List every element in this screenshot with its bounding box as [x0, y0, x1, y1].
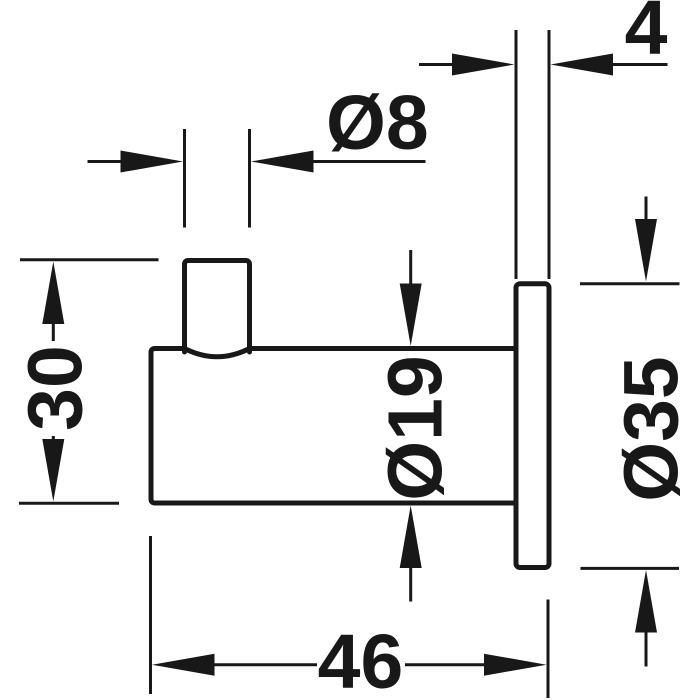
- Ø35 bottom arrow: [635, 570, 657, 633]
- 30: dimension line stems: [52, 323, 55, 341]
- 4: extension lines: [515, 30, 518, 279]
- svg-text:30: 30: [12, 345, 98, 431]
- wall plate: [516, 284, 549, 568]
- svg-text:46: 46: [318, 619, 404, 700]
- 4 right arrow: [551, 54, 614, 76]
- 30 top arrow: [42, 262, 64, 325]
- body top-right segment: [250, 346, 517, 351]
- 46: extension lines: [149, 536, 152, 694]
- Ø19 top arrow: [400, 284, 422, 347]
- Ø35 top arrow: [635, 219, 657, 282]
- svg-text:Ø8: Ø8: [326, 80, 429, 166]
- 30: extension lines: [20, 258, 159, 261]
- svg-text:Ø19: Ø19: [372, 355, 458, 501]
- 46: leader lines: [214, 663, 317, 666]
- 30 bottom arrow: [42, 439, 64, 502]
- svg-text:Ø35: Ø35: [608, 356, 694, 502]
- 46 left arrow: [152, 654, 215, 676]
- Ø8: leader lines: [88, 160, 122, 163]
- peg (hook pin): [185, 261, 250, 353]
- 46 right arrow: [484, 654, 547, 676]
- Ø35: stems: [645, 197, 648, 221]
- Ø19 bottom arrow: [400, 506, 422, 569]
- Ø19: stems: [409, 250, 412, 284]
- Ø35: extension lines: [580, 282, 680, 285]
- arrowheads: [42, 54, 657, 676]
- body left and bottom: [151, 349, 516, 504]
- hook body outline: [151, 261, 549, 568]
- Ø8 left arrow: [121, 151, 184, 173]
- peg/body intersection arc: [185, 349, 250, 357]
- 4: leader lines: [419, 63, 452, 66]
- Ø8: extension lines: [183, 129, 186, 228]
- 4 left arrow: [452, 54, 515, 76]
- svg-text:4: 4: [625, 0, 668, 71]
- Ø8 right arrow: [251, 151, 314, 173]
